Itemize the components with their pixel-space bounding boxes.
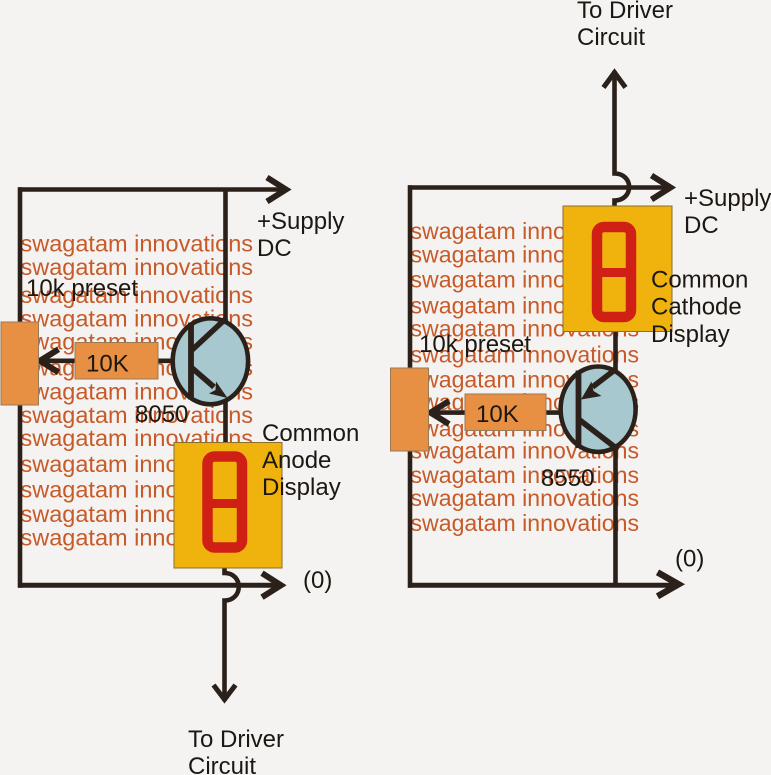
- svg-text:8550: 8550: [541, 465, 594, 492]
- wire: base wire from 10K resistor to Q2 base (right circuit): [543, 410, 582, 415]
- wire: display cathode wire to Q2 (right circuit): [613, 330, 618, 372]
- arrowhead: (0) rail arrow (left circuit): [262, 573, 281, 597]
- resistor R1 10K (left circuit): [75, 343, 158, 380]
- wire: collector wire from Q2 to bottom rail (right circuit): [613, 448, 618, 587]
- svg-text:Display: Display: [651, 321, 730, 348]
- wire: wiper wire from 10K resistor to preset (left circuit): [44, 358, 78, 363]
- svg-text:+Supply: +Supply: [257, 208, 344, 235]
- arrowhead: wiper arrow into preset (right circuit): [431, 401, 450, 424]
- preset VR2 10k (right circuit): [391, 368, 429, 451]
- svg-text:Circuit: Circuit: [188, 753, 256, 775]
- arrowhead: wiper arrow into preset (left circuit): [40, 349, 59, 372]
- wire: wiper wire from 10K resistor to preset (right circuit): [434, 410, 468, 415]
- svg-text:swagatam innovations: swagatam innovations: [411, 510, 640, 536]
- wire: +supply top rail (left circuit): [18, 187, 285, 192]
- label: Common Cathode Display (right circuit): [651, 267, 748, 349]
- svg-text:Common: Common: [262, 420, 359, 447]
- wire: collector wire from top rail to Q1 (left circuit): [223, 188, 228, 326]
- svg-text:swagatam innovations: swagatam innovations: [411, 462, 640, 488]
- arrowhead: +supply arrow (left circuit): [267, 178, 286, 202]
- arrowhead: to-driver down arrow (left circuit): [214, 685, 236, 700]
- svg-text:swagatam innovations: swagatam innovations: [411, 485, 640, 511]
- arrowhead: (0) rail arrow (right circuit): [658, 572, 679, 596]
- svg-text:To Driver: To Driver: [577, 0, 673, 24]
- svg-text:10K: 10K: [86, 351, 129, 378]
- svg-text:(0): (0): [303, 567, 332, 594]
- watermark text block right: [411, 218, 640, 536]
- svg-text:8050: 8050: [135, 401, 188, 428]
- 7-segment display DS1 common anode (left circuit): [174, 443, 282, 569]
- label: Common Anode Display (left circuit): [262, 420, 359, 501]
- svg-text:swagatam innovations: swagatam innovations: [21, 230, 254, 256]
- wire: +supply top rail (right circuit): [408, 185, 672, 190]
- wire: emitter wire from Q1 to display anode (left circuit): [223, 398, 228, 444]
- wire: left vertical rail (left circuit): [18, 187, 23, 588]
- svg-text:To Driver: To Driver: [188, 726, 284, 753]
- svg-text:10K: 10K: [476, 401, 519, 428]
- preset VR1 10k (left circuit): [1, 322, 39, 405]
- arrowhead: +supply arrow (right circuit): [652, 176, 671, 200]
- svg-text:Common: Common: [651, 267, 748, 294]
- wire: left vertical rail (right circuit): [408, 185, 413, 588]
- svg-text:(0): (0): [675, 546, 704, 573]
- transistor Q1 8050 NPN (left circuit): [173, 318, 248, 404]
- svg-text:10k preset: 10k preset: [26, 275, 138, 302]
- svg-text:Anode: Anode: [262, 447, 331, 474]
- svg-text:Cathode: Cathode: [651, 294, 742, 321]
- svg-text:DC: DC: [257, 235, 292, 262]
- wire: bottom (0) rail (right circuit): [408, 583, 673, 588]
- 7-segment display DS2 common cathode (right circuit): [563, 206, 672, 332]
- watermark text block left: [21, 230, 254, 550]
- svg-text:DC: DC: [684, 212, 719, 239]
- wire: bottom (0) rail (left circuit): [18, 583, 280, 588]
- label: To Driver Circuit (left circuit): [188, 726, 284, 775]
- svg-text:10k preset: 10k preset: [419, 331, 531, 358]
- wire: display cathode down-wire with hop over rail (left circuit): [225, 567, 239, 701]
- arrowhead: to-driver up arrow (right circuit): [604, 73, 626, 88]
- label: To Driver Circuit (right circuit): [577, 0, 673, 51]
- transistor Q2 8550 PNP (right circuit): [561, 367, 636, 452]
- svg-text:Display: Display: [262, 474, 341, 501]
- svg-text:Circuit: Circuit: [577, 24, 645, 51]
- wire: to-driver up-wire with hop over rail (right circuit): [615, 71, 630, 207]
- svg-text:+Supply: +Supply: [684, 185, 771, 212]
- resistor R2 10K (right circuit): [465, 394, 546, 431]
- wire: base wire from 10K resistor to Q1 base (left circuit): [155, 358, 195, 363]
